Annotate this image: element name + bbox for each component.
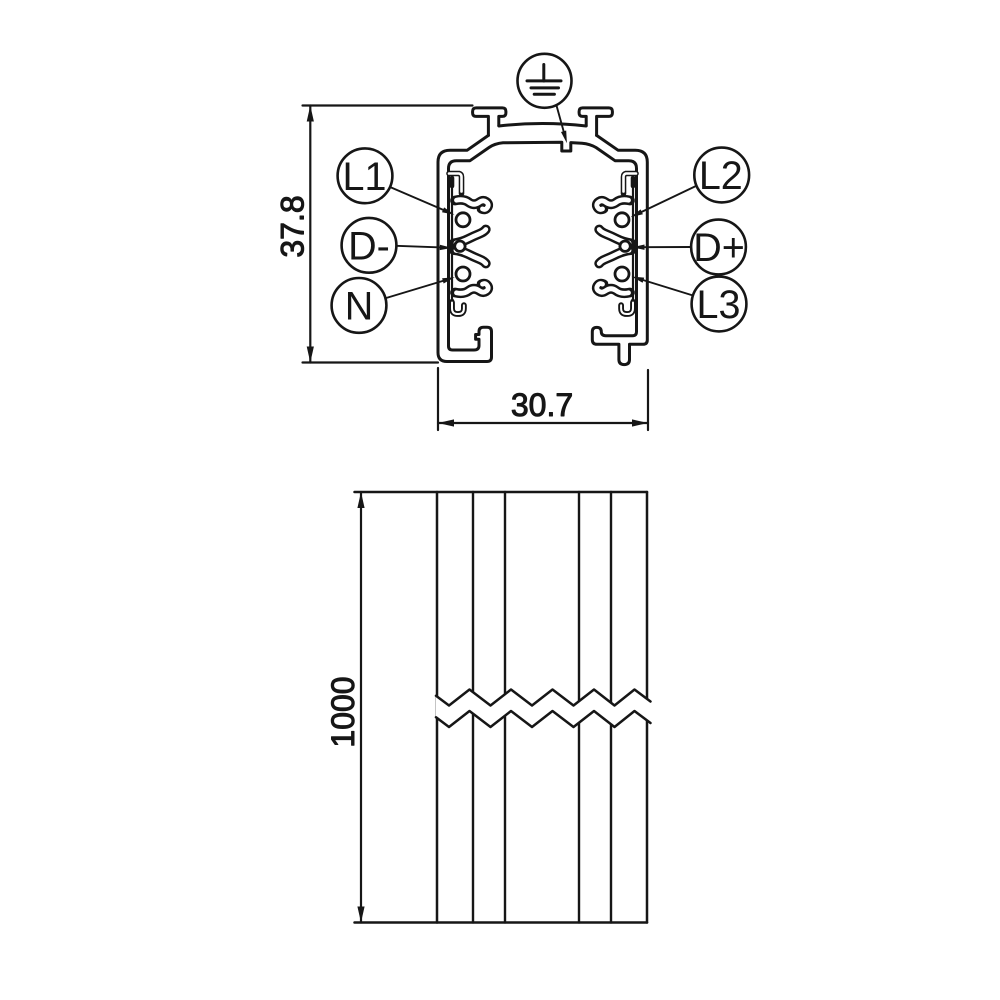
label circle N (332, 278, 387, 333)
dimension 1000 (325, 492, 365, 923)
leader D+ (632, 245, 692, 250)
label circle earth (518, 54, 572, 108)
svg-text:37.8: 37.8 (275, 195, 311, 257)
insulator liner strips (452, 177, 633, 315)
conductor L1 (456, 213, 470, 227)
svg-text:1000: 1000 (325, 676, 361, 747)
dimension 37.8 (275, 106, 473, 363)
conductor D+ (620, 241, 630, 251)
conductor D- (455, 241, 465, 251)
conductor holder arms and liners (449, 174, 636, 294)
conductor L2 (615, 213, 629, 227)
svg-text:N: N (345, 285, 374, 329)
leader L2 (631, 186, 698, 218)
svg-text:30.7: 30.7 (511, 387, 573, 423)
break lines (zigzag) (436, 690, 651, 728)
label circle L1 (338, 148, 393, 203)
leader N (385, 277, 455, 298)
label circle L3 (692, 277, 747, 332)
leader L1 (390, 187, 455, 215)
leader D- (396, 245, 452, 250)
label circle D- (342, 218, 397, 273)
label circle L2 (694, 148, 749, 203)
dimension 30.7 (438, 368, 648, 430)
track profile body walls (438, 108, 647, 365)
svg-text:D-: D- (348, 225, 390, 269)
label circle D+ (691, 220, 746, 275)
conductor N (456, 267, 470, 281)
side view rail (355, 492, 648, 923)
svg-text:L3: L3 (697, 283, 741, 327)
svg-text:L2: L2 (699, 154, 743, 198)
liner hooks (white cores) (452, 303, 633, 315)
leader L3 (632, 277, 694, 296)
conductor L3 (615, 267, 629, 281)
conductor holder arms (white cores) (449, 174, 636, 294)
leader earth (557, 106, 567, 144)
svg-text:D+: D+ (693, 226, 745, 270)
svg-text:L1: L1 (343, 155, 387, 199)
